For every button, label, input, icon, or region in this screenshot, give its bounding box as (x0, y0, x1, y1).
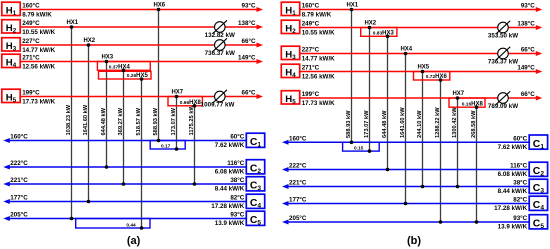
svg-text:93°C: 93°C (230, 212, 244, 219)
junction node on C3 at x=194.5 panel a (193, 182, 197, 186)
junction node on C4 at x=405.5 panel b (404, 202, 408, 206)
exchanger node HX8 on branch panel b (475, 105, 479, 109)
svg-text:0.17: 0.17 (161, 144, 171, 150)
svg-text:HX3: HX3 (101, 55, 113, 61)
stream label box H3 panel b (281, 46, 299, 61)
junction node on C2 at x=106.5 panel a (105, 165, 109, 169)
svg-text:644.48 kW: 644.48 kW (382, 110, 388, 138)
wire exchanger line 7 (173.07 kW) panel a (171, 97, 177, 150)
svg-text:173.07 kW: 173.07 kW (171, 107, 177, 135)
exchanger node HX5 on branch panel a (140, 77, 144, 81)
svg-text:271°C: 271°C (22, 55, 40, 62)
svg-text:1288.22 kW: 1288.22 kW (435, 107, 441, 138)
stream label box C4 panel b (529, 196, 547, 211)
svg-text:17.28 kW/K: 17.28 kW/K (494, 205, 527, 212)
svg-text:244.10 kW: 244.10 kW (417, 110, 423, 138)
exchanger node HX5 on H4 panel b (417, 65, 429, 74)
svg-text:8.44 kW/K: 8.44 kW/K (215, 186, 245, 193)
stream label box C5 panel a (246, 211, 264, 226)
cold stream C5 line panel b (282, 215, 529, 231)
svg-text:0.15: 0.15 (354, 146, 364, 152)
svg-text:0.37HX4: 0.37HX4 (109, 65, 131, 71)
svg-text:HX1: HX1 (346, 3, 358, 9)
exchanger node HX8 on branch panel a (193, 104, 197, 108)
junction node on C1 at x=351.5 panel b (350, 141, 354, 145)
exchanger node HX2 on H3 panel a (83, 38, 95, 47)
svg-text:518.57 kW: 518.57 kW (136, 107, 142, 135)
svg-text:177°C: 177°C (289, 197, 307, 204)
wire exchanger line 1 (1038.23 kW) panel a (66, 27, 72, 219)
exchanger node HX2 on H2 panel b (364, 21, 376, 30)
svg-text:588.93 kW: 588.93 kW (153, 107, 159, 135)
exchanger node HX7 on H5 panel a (171, 90, 183, 99)
svg-text:221°C: 221°C (10, 177, 28, 184)
svg-text:1038.23 kW: 1038.23 kW (66, 104, 72, 135)
svg-text:138°C: 138°C (517, 21, 535, 28)
svg-text:66°C: 66°C (242, 38, 256, 45)
svg-text:221°C: 221°C (289, 180, 307, 187)
wire exchanger line 7 (1300.42 kW) panel b (452, 98, 458, 187)
cold stream C1 line panel b (282, 135, 529, 151)
svg-text:38°C: 38°C (230, 177, 244, 184)
svg-text:8.79 kW/K: 8.79 kW/K (22, 11, 52, 18)
svg-text:222°C: 222°C (10, 160, 28, 167)
wire exchanger line 5 (244.10 kW) panel b (417, 72, 423, 187)
exchanger node HX7 on H5 panel b (452, 91, 464, 100)
junction node on C5 branch panel a (140, 226, 144, 230)
cold stream C3 line panel a (3, 177, 246, 193)
svg-text:10.55 kW/K: 10.55 kW/K (302, 29, 335, 36)
split branch box on C1 fraction 0.17 panel a (150, 141, 185, 150)
hot stream H3 line panel a (20, 38, 263, 54)
wire exchanger line 8 (1175.25 kW) panel a (189, 105, 195, 184)
svg-text:6.08 kW/K: 6.08 kW/K (215, 169, 245, 176)
split branch box HX8 fraction 0.16 panel b (449, 98, 485, 107)
svg-text:HX7: HX7 (171, 90, 183, 96)
svg-text:736.37 kW: 736.37 kW (488, 59, 518, 66)
svg-text:222°C: 222°C (289, 163, 307, 170)
stream label box C3 panel b (529, 179, 547, 194)
svg-text:66°C: 66°C (521, 47, 535, 54)
split branch box on C5 fraction 0.44 panel a (76, 219, 150, 229)
stream label box H1 panel a (2, 2, 20, 17)
stream label box H2 panel a (2, 20, 20, 35)
stream label box H2 panel b (281, 20, 299, 35)
svg-text:268.58 kW: 268.58 kW (471, 110, 477, 138)
stream label box C4 panel a (246, 194, 264, 209)
stream label box C3 panel a (246, 177, 264, 192)
svg-text:(b): (b) (407, 235, 421, 247)
hot stream H3 line panel b (300, 47, 543, 63)
wire exchanger line 2 (1641.60 kW) panel a (83, 45, 89, 202)
exchanger node HX6 on branch panel b (439, 78, 443, 82)
wire exchanger line 1 (588.93 kW) panel b (346, 10, 352, 143)
split branch box HX3 fraction 0.83 panel b (361, 28, 397, 37)
svg-text:149°C: 149°C (517, 65, 535, 72)
cold stream C4 line panel b (282, 197, 529, 213)
svg-text:0.44: 0.44 (126, 223, 136, 229)
svg-text:116°C: 116°C (510, 163, 528, 170)
svg-text:369.27 kW: 369.27 kW (118, 107, 124, 135)
svg-text:173.07 kW: 173.07 kW (364, 110, 370, 138)
stream label box H1 panel b (281, 2, 299, 17)
junction node on C5 at x=440.5 panel b (439, 220, 443, 224)
split branch box HX6 fraction 0.72 panel b (414, 72, 450, 81)
cold stream C4 line panel a (3, 195, 246, 211)
stream label box H5 panel b (281, 91, 299, 106)
junction node on C3 at x=123.5 panel a (122, 182, 126, 186)
wire exchanger line 8 (268.58 kW) panel b (471, 107, 477, 222)
svg-text:1009.77 kW: 1009.77 kW (201, 102, 235, 109)
stream label box C2 panel b (529, 162, 547, 177)
svg-text:HX2: HX2 (364, 21, 376, 27)
svg-text:644.48 kW: 644.48 kW (101, 107, 107, 135)
wire exchanger line 3 (644.48 kW) panel b (382, 36, 388, 169)
hot stream H5 line panel a (20, 90, 263, 106)
exchanger node HX4 on branch panel a (122, 69, 126, 73)
wire exchanger line 6 (588.93 kW) panel a (153, 10, 159, 141)
hot stream H4 line panel b (300, 65, 543, 81)
wire exchanger line 6 (1288.22 kW) panel b (435, 80, 441, 222)
svg-text:66°C: 66°C (521, 91, 535, 98)
svg-text:177°C: 177°C (10, 195, 28, 202)
wire exchanger line 3 (644.48 kW) panel a (101, 62, 107, 168)
svg-text:HX5: HX5 (417, 65, 429, 71)
svg-text:(a): (a) (127, 235, 141, 247)
svg-text:160°C: 160°C (302, 3, 320, 10)
junction node on C1 at x=158.5 panel a (157, 139, 161, 143)
svg-text:HX7: HX7 (452, 91, 464, 97)
cold stream C2 line panel b (282, 163, 529, 179)
svg-text:7.62 kW/K: 7.62 kW/K (498, 144, 528, 151)
svg-text:138°C: 138°C (238, 20, 256, 27)
svg-text:353.50 kW: 353.50 kW (488, 33, 518, 40)
svg-text:13.9 kW/K: 13.9 kW/K (215, 220, 245, 227)
cooler utility on H3 (736.37 kW) panel a (205, 38, 235, 57)
svg-text:93°C: 93°C (242, 3, 256, 10)
svg-text:HX2: HX2 (83, 38, 95, 44)
wire exchanger line 4 (1641.60 kW) panel b (400, 54, 406, 204)
svg-text:227°C: 227°C (302, 47, 320, 54)
svg-text:132.82 kW: 132.82 kW (205, 32, 235, 39)
junction node on C1 branch panel b (368, 149, 372, 153)
stream label box H3 panel a (2, 38, 20, 53)
exchanger node HX1 on H1 panel b (346, 3, 358, 12)
hot stream H1 line panel b (300, 3, 543, 19)
svg-text:8.79 kW/K: 8.79 kW/K (302, 11, 332, 18)
exchanger node HX4 on H3 panel b (400, 47, 412, 56)
stream label box C1 panel a (246, 133, 264, 148)
svg-text:17.73 kW/K: 17.73 kW/K (22, 98, 55, 105)
svg-text:12.56 kW/K: 12.56 kW/K (22, 63, 55, 70)
svg-text:1641.60 kW: 1641.60 kW (83, 104, 89, 135)
svg-text:7.62 kW/K: 7.62 kW/K (215, 142, 245, 149)
cold stream C1 line panel a (3, 134, 246, 150)
svg-text:HX1: HX1 (66, 20, 78, 26)
exchanger node HX6 on H1 panel a (153, 3, 165, 12)
wire exchanger line 4 (369.27 kW) panel a (118, 70, 124, 184)
cooler utility on H3 (736.37 kW) panel b (488, 47, 518, 66)
cold stream C2 line panel a (3, 160, 246, 176)
svg-text:0.72HX6: 0.72HX6 (426, 74, 448, 80)
cooler utility on H5 (789.09 kW) panel b (488, 91, 518, 110)
junction node on C5 at x=71.5 panel a (70, 217, 74, 221)
split branch box HX4 fraction 0.37 panel a (97, 62, 150, 71)
hot stream H2 line panel a (20, 20, 263, 36)
svg-text:12.56 kW/K: 12.56 kW/K (302, 73, 335, 80)
svg-text:93°C: 93°C (513, 215, 527, 222)
svg-text:736.37 kW: 736.37 kW (205, 50, 235, 57)
svg-text:38°C: 38°C (513, 180, 527, 187)
svg-text:10.55 kW/K: 10.55 kW/K (22, 29, 55, 36)
svg-text:HX6: HX6 (153, 3, 165, 9)
svg-text:0.83HX3: 0.83HX3 (373, 31, 395, 37)
svg-text:17.28 kW/K: 17.28 kW/K (211, 203, 244, 210)
cold stream C5 line panel a (3, 212, 246, 228)
svg-text:1175.25 kW: 1175.25 kW (189, 105, 195, 136)
svg-text:227°C: 227°C (22, 38, 40, 45)
svg-text:14.77 kW/K: 14.77 kW/K (22, 47, 55, 54)
svg-text:17.73 kW/K: 17.73 kW/K (302, 100, 335, 107)
stream label box H5 panel a (2, 89, 20, 104)
svg-text:160°C: 160°C (289, 135, 307, 142)
junction node on C1 branch panel a (175, 147, 179, 151)
junction node on C3 at x=457.5 panel b (456, 185, 460, 189)
split branch box on C1 fraction 0.15 panel b (343, 142, 380, 151)
junction node on C4 at x=88.5 panel a (87, 200, 91, 204)
junction node on C3 at x=422.5 panel b (421, 185, 425, 189)
hot stream H2 line panel b (300, 21, 543, 37)
hot stream H5 line panel b (300, 91, 543, 107)
split branch box HX8 fraction 0.66 panel a (168, 97, 202, 107)
exchanger node HX1 on H2 panel a (66, 20, 78, 29)
svg-text:249°C: 249°C (302, 21, 320, 28)
svg-text:199°C: 199°C (22, 90, 40, 97)
stream label box C5 panel b (529, 215, 547, 230)
svg-text:82°C: 82°C (230, 195, 244, 202)
svg-text:13.9 kW/K: 13.9 kW/K (498, 224, 528, 231)
junction node on C2 at x=387.5 panel b (386, 168, 390, 172)
svg-text:1300.42 kW: 1300.42 kW (452, 107, 458, 138)
svg-text:205°C: 205°C (289, 215, 307, 222)
svg-text:6.08 kW/K: 6.08 kW/K (498, 171, 528, 178)
stream label box C2 panel a (246, 160, 264, 175)
svg-text:8.44 kW/K: 8.44 kW/K (498, 188, 528, 195)
stream label box H4 panel b (281, 64, 299, 79)
exchanger node HX3 on H4 panel a (101, 55, 113, 64)
svg-text:588.93 kW: 588.93 kW (346, 110, 352, 138)
svg-text:66°C: 66°C (242, 90, 256, 97)
svg-text:789.09 kW: 789.09 kW (488, 103, 518, 110)
exchanger node HX3 on branch panel b (386, 35, 390, 39)
stream label box H4 panel a (2, 54, 20, 69)
hot stream H1 line panel a (20, 3, 263, 19)
stream label box C1 panel b (529, 135, 547, 150)
svg-text:249°C: 249°C (22, 20, 40, 27)
svg-text:0.26HX5: 0.26HX5 (127, 73, 149, 79)
junction node on C5 at x=476.5 panel b (475, 220, 479, 224)
svg-text:0.66HX8: 0.66HX8 (180, 100, 202, 106)
svg-text:160°C: 160°C (22, 3, 40, 10)
svg-text:60°C: 60°C (230, 134, 244, 141)
svg-text:160°C: 160°C (10, 134, 28, 141)
cold stream C3 line panel b (282, 180, 529, 196)
svg-text:0.16HX8: 0.16HX8 (462, 101, 484, 107)
split branch box HX5 fraction 0.26 panel a (99, 71, 152, 79)
svg-text:1641.60 kW: 1641.60 kW (400, 107, 406, 138)
cooler utility on H5 (1009.77 kW) panel a (201, 90, 235, 109)
svg-text:82°C: 82°C (513, 197, 527, 204)
svg-text:199°C: 199°C (302, 91, 320, 98)
svg-text:93°C: 93°C (521, 3, 535, 10)
hot stream H4 line panel a (20, 55, 263, 71)
svg-text:149°C: 149°C (238, 55, 256, 62)
wire exchanger line 5 (518.57 kW) panel a (136, 79, 142, 228)
wire exchanger line 2 (173.07 kW) panel b (364, 28, 370, 152)
svg-text:HX4: HX4 (400, 47, 412, 53)
svg-text:205°C: 205°C (10, 212, 28, 219)
svg-text:60°C: 60°C (513, 135, 527, 142)
cooler utility on H2 (132.82 kW) panel a (205, 20, 235, 39)
cooler utility on H2 (353.50 kW) panel b (488, 21, 518, 40)
svg-text:271°C: 271°C (302, 65, 320, 72)
svg-text:116°C: 116°C (227, 160, 245, 167)
svg-text:14.77 kW/K: 14.77 kW/K (302, 55, 335, 62)
